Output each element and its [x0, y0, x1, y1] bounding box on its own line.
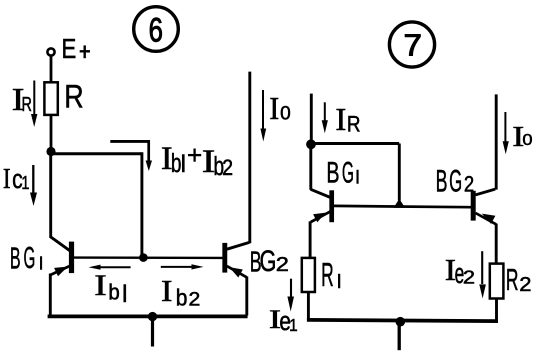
svg-text:I: I [269, 91, 279, 126]
svg-text:2: 2 [222, 156, 233, 180]
svg-text:I: I [3, 163, 11, 195]
svg-text:1: 1 [289, 316, 298, 335]
svg-text:2: 2 [188, 289, 200, 310]
svg-text:2: 2 [463, 268, 475, 288]
svg-text:B: B [10, 242, 21, 276]
svg-text:R: R [64, 79, 83, 115]
svg-text:I: I [94, 270, 106, 302]
svg-text:E: E [61, 34, 76, 65]
svg-text:l: l [337, 272, 341, 293]
svg-text:l: l [355, 166, 359, 187]
svg-text:R: R [506, 263, 519, 297]
svg-text:2: 2 [519, 274, 531, 296]
svg-text:b: b [108, 279, 119, 304]
svg-text:G: G [24, 241, 36, 275]
svg-text:R: R [347, 112, 361, 137]
svg-text:G: G [449, 164, 462, 199]
svg-text:l: l [122, 281, 127, 308]
svg-text:b: b [176, 284, 188, 310]
svg-text:G: G [342, 156, 354, 188]
svg-text:B: B [436, 164, 448, 199]
svg-text:6: 6 [149, 12, 163, 49]
svg-text:R: R [21, 92, 31, 115]
svg-text:I: I [335, 102, 346, 137]
svg-text:I: I [161, 275, 172, 309]
svg-text:2: 2 [276, 253, 289, 276]
svg-text:1: 1 [21, 174, 29, 194]
svg-text:2: 2 [464, 172, 474, 197]
svg-text:0: 0 [280, 103, 291, 124]
svg-text:7: 7 [403, 28, 421, 63]
svg-text:G: G [260, 244, 277, 278]
svg-text:R: R [321, 256, 334, 294]
svg-text:l: l [39, 254, 43, 274]
svg-text:0: 0 [522, 130, 532, 149]
svg-text:l: l [181, 151, 186, 178]
svg-text:B: B [326, 157, 339, 190]
